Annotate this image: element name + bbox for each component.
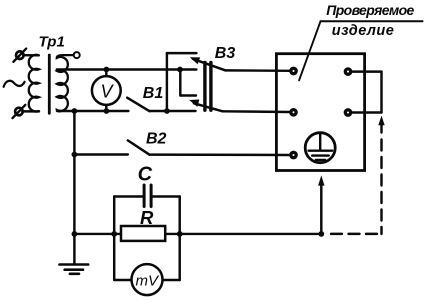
switch B1 arm xyxy=(127,98,149,112)
terminal box top-right xyxy=(345,69,350,74)
wire rail to B2 xyxy=(74,153,127,155)
svg-text:C: C xyxy=(138,163,153,185)
protective earth symbol circle xyxy=(305,133,335,163)
B3 top arm xyxy=(193,59,226,71)
bottom measuring wire xyxy=(74,233,321,235)
label leader line xyxy=(299,21,320,80)
RC network left vertical xyxy=(113,197,115,281)
bottom branch wire left xyxy=(114,279,131,281)
svg-text:Тр1: Тр1 xyxy=(39,33,65,50)
B3 L-stub vertical xyxy=(179,70,181,96)
svg-text:V: V xyxy=(101,81,115,101)
wire bracket to B3 bottom contact xyxy=(167,110,196,112)
svg-text:R: R xyxy=(140,207,154,228)
earth symbol bars xyxy=(309,151,333,160)
transformer Tr1 core xyxy=(48,55,51,113)
terminal box top-left xyxy=(291,68,296,73)
switch B3 bracket vertical xyxy=(166,53,168,111)
dashed probe line vertical xyxy=(380,140,382,234)
B3 bottom arm arrowhead xyxy=(189,100,199,107)
wire B1 to B3 bracket xyxy=(150,110,168,112)
resistor R xyxy=(121,226,165,241)
left ground rail xyxy=(73,111,75,263)
probe arrow right (up) xyxy=(378,116,384,126)
voltmeter V stub top xyxy=(105,70,107,78)
top branch wire right xyxy=(153,195,180,197)
B3 top fixed stub xyxy=(167,52,197,54)
node: V bottom junction xyxy=(104,108,110,114)
terminal box mid-left xyxy=(291,110,296,115)
voltmeter V stub bottom xyxy=(105,105,107,112)
node: top wire feed junction xyxy=(177,67,183,73)
svg-text:В2: В2 xyxy=(146,131,167,148)
transformer Tr1 primary winding xyxy=(29,55,39,112)
node: RC left xyxy=(111,231,117,237)
transformer Tr1 secondary winding xyxy=(57,55,74,111)
B3 gang linkage bar right xyxy=(209,63,212,111)
B3 top arm arrowhead xyxy=(190,57,200,64)
bottom wire (secondary bottom to B1) xyxy=(57,110,128,112)
wire B3 bottom pole to box xyxy=(223,110,291,113)
switch B2 arm xyxy=(128,140,150,154)
wire B2 to box bottom terminal xyxy=(150,153,291,156)
wire bottom terminal to primary xyxy=(23,110,40,112)
right vertical link xyxy=(380,72,382,113)
millivoltmeter mV xyxy=(132,264,163,295)
bottom branch wire right xyxy=(163,279,180,281)
svg-text:В3: В3 xyxy=(215,45,236,62)
AC tilde symbol xyxy=(4,81,25,87)
svg-text:Проверяемое: Проверяемое xyxy=(326,2,414,18)
B3 bottom arm xyxy=(194,103,223,111)
node: B2 tap on rail xyxy=(72,152,78,158)
node: bracket bottom junction xyxy=(164,108,170,114)
wire top terminal to primary xyxy=(23,54,38,57)
terminal box bottom-left xyxy=(291,152,296,157)
svg-text:изделие: изделие xyxy=(332,23,394,39)
node: probe junction xyxy=(318,231,324,237)
capacitor C plates xyxy=(143,185,146,207)
left rail junction top xyxy=(72,108,78,114)
secondary free terminal (open circle) xyxy=(74,52,80,58)
ground symbol xyxy=(60,265,89,274)
earth probe arrow under box (up) xyxy=(318,175,324,185)
svg-text:В1: В1 xyxy=(143,85,164,102)
B3 L-stub horizontal xyxy=(180,94,196,96)
B3 gang linkage bar left xyxy=(203,63,206,111)
dashed probe line horizontal xyxy=(325,233,378,235)
node: RC right xyxy=(177,231,183,237)
top wire (secondary tap to B3 contact) xyxy=(57,68,197,70)
node: V top junction xyxy=(104,67,110,73)
wire box top-right terminal to right xyxy=(351,70,381,72)
device under test box xyxy=(276,54,364,171)
node: rail bottom junction xyxy=(72,231,78,237)
top branch wire left xyxy=(114,195,142,197)
label underline xyxy=(321,20,423,22)
wire B3 top pole to box xyxy=(226,69,291,72)
terminal box mid-right xyxy=(345,110,350,115)
earth symbol stem xyxy=(319,134,321,150)
AC input terminal top (circle with slash) xyxy=(13,49,26,62)
RC network right vertical xyxy=(178,197,180,281)
wire box mid-right terminal to right xyxy=(351,111,381,113)
svg-text:mV: mV xyxy=(136,273,160,290)
AC input terminal bottom (circle with slash) xyxy=(13,105,26,118)
voltmeter V xyxy=(92,76,121,105)
